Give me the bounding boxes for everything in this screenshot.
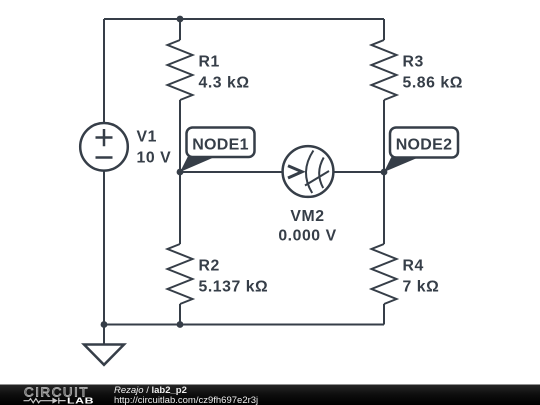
svg-text:NODE1: NODE1 bbox=[192, 137, 249, 154]
resistor R3 bbox=[372, 40, 397, 100]
wire R4 to bottom rail bbox=[383, 304, 385, 325]
wire R3 top stub bbox=[383, 19, 385, 40]
junction dot bottom rail / R2 bbox=[177, 321, 184, 328]
VM2 value label bbox=[278, 208, 336, 245]
svg-text:V1: V1 bbox=[137, 129, 157, 146]
wire NODE2 to R4 bbox=[383, 172, 385, 244]
R1 value label bbox=[199, 54, 250, 92]
R2 value label bbox=[199, 258, 269, 296]
junction dot bottom rail / ground bbox=[101, 321, 108, 328]
ground bbox=[84, 345, 124, 365]
wire top horizontal bbox=[104, 18, 384, 20]
svg-text:R1: R1 bbox=[199, 54, 220, 71]
svg-text:LAB: LAB bbox=[67, 397, 94, 405]
svg-text:5.137 kΩ: 5.137 kΩ bbox=[199, 279, 269, 296]
junction dot NODE1 bbox=[177, 169, 184, 176]
footer bar bbox=[0, 385, 540, 405]
R4 value label bbox=[403, 258, 440, 296]
wire NODE1 to R2 bbox=[179, 172, 181, 244]
voltmeter VM2 bbox=[283, 146, 334, 197]
logo diode glyph bbox=[52, 398, 57, 404]
wire R1 to NODE1 bbox=[179, 100, 181, 172]
wire left vertical lower (V1 to bottom rail) bbox=[103, 169, 105, 325]
logo resistor glyph bbox=[24, 399, 53, 403]
svg-text:0.000 V: 0.000 V bbox=[278, 228, 336, 245]
svg-text:4.3 kΩ: 4.3 kΩ bbox=[199, 75, 250, 92]
svg-text:7 kΩ: 7 kΩ bbox=[403, 279, 440, 296]
svg-text:R4: R4 bbox=[403, 258, 424, 275]
wire bottom horizontal bbox=[104, 324, 384, 326]
svg-text:VM2: VM2 bbox=[290, 208, 324, 225]
CircuitLab logo wordmark bbox=[24, 385, 95, 405]
V1 value label bbox=[137, 129, 172, 167]
resistor R1 bbox=[168, 40, 193, 100]
footer credit line bbox=[114, 385, 258, 405]
wire R1 top stub bbox=[179, 19, 181, 40]
node NODE2 bbox=[384, 128, 458, 173]
svg-text:http://circuitlab.com/cz9fh697: http://circuitlab.com/cz9fh697e2r3j bbox=[114, 395, 258, 405]
svg-text:5.86 kΩ: 5.86 kΩ bbox=[403, 75, 463, 92]
ground stub wire bbox=[103, 325, 105, 345]
wire R2 to bottom rail bbox=[179, 304, 181, 325]
svg-text:R2: R2 bbox=[199, 258, 220, 275]
voltage source V1 bbox=[80, 123, 128, 171]
wire left vertical upper (top rail to V1) bbox=[103, 19, 105, 123]
wire voltmeter to NODE2 bbox=[334, 171, 385, 173]
node NODE1 bbox=[180, 128, 255, 173]
wire R3 to NODE2 bbox=[383, 100, 385, 172]
wire NODE1 to voltmeter bbox=[180, 171, 283, 173]
svg-text:NODE2: NODE2 bbox=[396, 137, 453, 154]
resistor R2 bbox=[168, 244, 193, 304]
R3 value label bbox=[403, 54, 463, 92]
junction dot top rail / R1 bbox=[177, 16, 184, 23]
resistor R4 bbox=[372, 244, 397, 304]
junction dot NODE2 bbox=[381, 169, 388, 176]
svg-text:10 V: 10 V bbox=[137, 149, 172, 166]
svg-text:R3: R3 bbox=[403, 54, 424, 71]
